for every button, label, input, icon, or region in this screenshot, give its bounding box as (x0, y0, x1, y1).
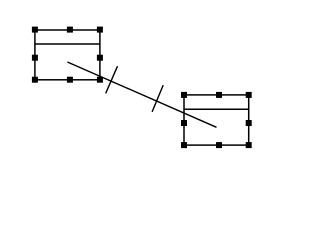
tick mark 1 on connection line (106, 66, 118, 93)
box 1 selection handle bottom-middle (67, 77, 73, 83)
box 2 selection handle bottom-middle (216, 142, 222, 148)
box 2 header divider line (184, 108, 249, 110)
box 1 selection handle middle-left (32, 55, 38, 61)
box 1 selection handle bottom-right (97, 77, 103, 83)
box 1 selection handle bottom-left (32, 77, 38, 83)
connection line from box 1 to box 2 (67, 62, 216, 127)
box 2 selection handle bottom-right (246, 142, 252, 148)
box 2 selection handle top-right (246, 92, 252, 98)
tick mark 2 on connection line (152, 85, 163, 112)
box 1 selection handle top-left (32, 27, 38, 33)
box 2 outline (184, 95, 249, 145)
box 2 selection handle top-middle (216, 92, 222, 98)
box 1 selection handle top-middle (67, 27, 73, 33)
box 1 header divider line (35, 43, 100, 45)
box 1 selection handle top-right (97, 27, 103, 33)
box 2 selection handle middle-left (181, 120, 187, 126)
box 2 selection handle middle-right (246, 120, 252, 126)
box 1 outline (35, 30, 100, 80)
box 2 selection handle bottom-left (181, 142, 187, 148)
box 2 selection handle top-left (181, 92, 187, 98)
box 1 selection handle middle-right (97, 55, 103, 61)
